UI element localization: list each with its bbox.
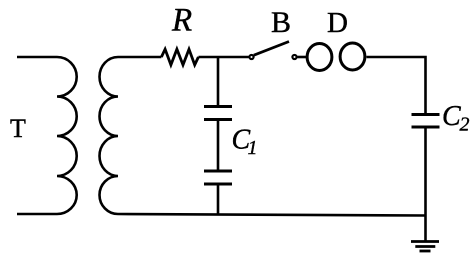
- switch B left contact: [249, 55, 253, 59]
- transformer T secondary winding: [100, 57, 119, 214]
- svg-text:R: R: [171, 3, 192, 39]
- resistor R: [161, 49, 198, 65]
- discharger D ball 2: [340, 43, 365, 70]
- capacitor C1 lower plates: [204, 170, 232, 173]
- discharger D ball 1: [307, 44, 332, 71]
- wire: switch to discharger: [297, 56, 308, 59]
- svg-text:1: 1: [248, 137, 258, 159]
- ground: [411, 240, 439, 243]
- switch B lever: [254, 42, 289, 56]
- svg-text:C: C: [442, 101, 461, 132]
- wire: discharger to right corner and down: [367, 57, 426, 114]
- transformer T primary winding: [17, 57, 77, 214]
- wire: resistor to switch (through C1 node): [198, 56, 249, 59]
- capacitor C2 plates: [412, 113, 440, 116]
- capacitor C1 upper plates: [204, 105, 232, 108]
- bottom wire: [118, 214, 426, 216]
- node: C1 branch junction: [217, 57, 220, 105]
- wire: C2 down to ground: [424, 129, 427, 242]
- svg-text:T: T: [10, 114, 26, 143]
- wire: C1 to bottom wire: [217, 186, 220, 216]
- switch B right contact: [292, 55, 296, 59]
- wire: secondary top to resistor: [118, 56, 161, 59]
- wire: between C1 sections: [217, 121, 220, 170]
- svg-text:B: B: [271, 6, 291, 39]
- svg-text:2: 2: [460, 113, 470, 135]
- svg-text:D: D: [327, 7, 348, 39]
